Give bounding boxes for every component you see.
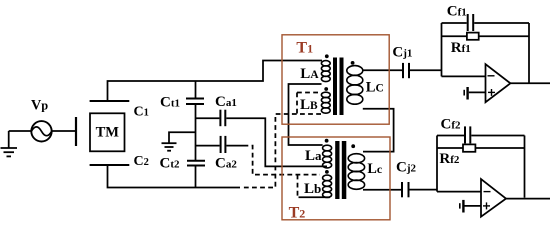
svg-text:C1: C1 <box>134 105 149 120</box>
svg-text:Ct1: Ct1 <box>160 94 180 110</box>
svg-text:Rf2: Rf2 <box>439 151 460 167</box>
svg-text:LB: LB <box>300 97 318 113</box>
svg-text:Cf2: Cf2 <box>441 116 462 132</box>
svg-text:La: La <box>305 148 322 164</box>
svg-text:Rf1: Rf1 <box>451 40 471 56</box>
svg-text:C2: C2 <box>134 154 149 169</box>
svg-text:LA: LA <box>300 66 319 82</box>
svg-text:Cj2: Cj2 <box>396 160 417 176</box>
svg-text:T1: T1 <box>296 39 313 56</box>
svg-text:Cf1: Cf1 <box>447 4 467 20</box>
svg-text:T2: T2 <box>289 205 306 222</box>
svg-text:Ca1: Ca1 <box>215 94 237 110</box>
svg-text:TM: TM <box>96 125 120 141</box>
svg-text:LC: LC <box>366 80 384 96</box>
svg-text:Lc: Lc <box>367 161 382 177</box>
svg-text:Vp: Vp <box>31 98 48 114</box>
svg-text:Ct2: Ct2 <box>160 155 181 171</box>
svg-text:Cj1: Cj1 <box>392 45 412 61</box>
svg-text:Ca2: Ca2 <box>215 156 237 172</box>
svg-text:Lb: Lb <box>304 181 321 197</box>
